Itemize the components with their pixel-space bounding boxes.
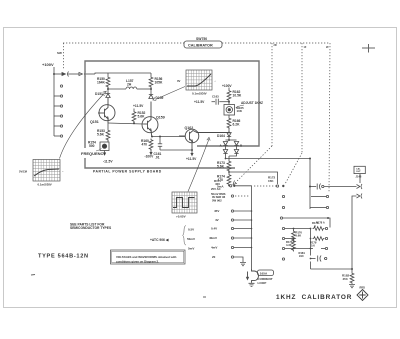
svg-text:→: → (214, 79, 217, 83)
wire to output cap (225, 158, 227, 160)
svg-text:50mV: 50mV (187, 237, 195, 241)
svg-text:+ATC 906 ◀: +ATC 906 ◀ (150, 238, 169, 242)
svg-text:0.1mS/DIV: 0.1mS/DIV (192, 92, 207, 96)
node -100V (150, 150, 152, 155)
wire leader curve to D159 (153, 87, 185, 101)
svg-text:Q151: Q151 (90, 120, 99, 124)
svg-text:CALIBRATOR: CALIBRATOR (188, 44, 213, 48)
wire rail (54, 67, 95, 136)
ground (349, 285, 355, 288)
potentiometer R165 ADJUST (224, 105, 235, 116)
svg-text:5.6K: 5.6K (138, 115, 146, 119)
wire leader curve to Q162 (188, 137, 210, 191)
wire tap to first contact (228, 171, 230, 174)
svg-text:164K: 164K (97, 81, 106, 85)
svg-text:+11.5V: +11.5V (186, 157, 197, 161)
wire dashed contact link (235, 195, 250, 197)
svg-text:ADJUST 1KHZ: ADJUST 1KHZ (241, 101, 263, 105)
transistor Q162 (179, 129, 229, 150)
svg-text:10.5K: 10.5K (233, 94, 242, 98)
resistor R175 (313, 227, 325, 231)
wire dashed contact link top (254, 185, 276, 187)
svg-text:40mV: 40mV (209, 236, 217, 240)
svg-text:1F: 1F (304, 46, 307, 49)
contact pair (moving) (276, 185, 278, 187)
svg-text:500: 500 (89, 144, 95, 148)
svg-text:SW750: SW750 (196, 37, 207, 41)
connector pair (62, 72, 86, 77)
voltages note box (111, 250, 186, 264)
svg-text:5V/CM: 5V/CM (19, 170, 27, 174)
svg-text:TYPE 564B-12N: TYPE 564B-12N (38, 254, 89, 260)
svg-text:45V: 45V (214, 209, 219, 213)
wire output bus from divider top (310, 159, 357, 210)
svg-text:D164: D164 (217, 134, 225, 138)
wire dashed diagonal to wafer 2 (285, 153, 302, 184)
contact row 248 (325, 247, 327, 249)
wire cross (108, 87, 151, 94)
svg-text:2H: 2H (127, 83, 132, 87)
svg-text:0.4V: 0.4V (211, 227, 217, 231)
svg-text:A: A (314, 224, 316, 228)
svg-text:165A: 165A (260, 271, 268, 275)
svg-text:OUT: OUT (356, 171, 361, 173)
resistor R166 (228, 115, 230, 117)
diode D159 (149, 95, 153, 99)
node +11.5V emitter (191, 150, 193, 156)
wire dashed drop at 330 (329, 43, 330, 193)
svg-text:C163: C163 (212, 95, 219, 99)
svg-text:+100V: +100V (42, 62, 54, 67)
capacitor C161 (158, 137, 192, 150)
wire dashed drop at 272 (271, 43, 273, 146)
wire dashed gang horizontal (63, 42, 184, 44)
svg-text:10K: 10K (237, 109, 243, 113)
resistor R156 (149, 76, 153, 88)
svg-text:4.3K: 4.3K (286, 243, 292, 247)
svg-text:Q159: Q159 (156, 116, 165, 120)
resistor R162 (227, 90, 231, 102)
svg-text:-11.5V: -11.5V (103, 160, 113, 164)
small mark bottom left (31, 274, 35, 277)
svg-text:470: 470 (142, 143, 148, 147)
svg-text:5.6K: 5.6K (97, 133, 105, 137)
diode pair D166 A/B (223, 150, 227, 154)
svg-text:5.6: 5.6 (311, 244, 315, 248)
svg-text:.01: .01 (155, 156, 160, 160)
svg-text:CAL: CAL (356, 167, 361, 170)
svg-text:910: 910 (299, 254, 304, 258)
resistor R152 (132, 111, 136, 123)
svg-text:Q162: Q162 (185, 126, 194, 130)
connector pins (357, 184, 363, 199)
svg-text:105K: 105K (155, 81, 164, 85)
svg-text:5mV: 5mV (188, 247, 194, 251)
svg-text:0.5V: 0.5V (188, 228, 194, 232)
svg-text:453: 453 (343, 277, 348, 281)
wire dashed drop left (63, 43, 65, 70)
svg-text:5.6K: 5.6K (296, 234, 302, 238)
svg-text:+11.5V: +11.5V (133, 104, 144, 108)
svg-text:←: ← (62, 169, 65, 173)
svg-text:4mV: 4mV (211, 246, 217, 250)
resistor R176 (292, 230, 296, 242)
wire return (352, 196, 357, 272)
svg-text:25V AC: 25V AC (211, 187, 221, 191)
svg-text:4V: 4V (215, 218, 219, 222)
transistor Q159 (142, 102, 158, 137)
svg-text:5.6K: 5.6K (217, 165, 225, 169)
wire long row to R175 (283, 218, 352, 269)
svg-text:15K: 15K (268, 179, 274, 183)
diode D164 (227, 133, 231, 137)
svg-text:VOLTAGES and WAVEFORMS obtaine: VOLTAGES and WAVEFORMS obtained with (116, 255, 177, 259)
resistor R160 (149, 139, 153, 151)
wire dashed diagonal to wafer 1 (234, 146, 272, 184)
diode pair D165 A/B (228, 139, 230, 141)
logo diamond (357, 290, 368, 301)
resistor R153 (107, 123, 109, 129)
wire emitter junction (151, 136, 153, 138)
svg-text:+0.05V: +0.05V (176, 215, 186, 219)
svg-text:2R: 2R (274, 44, 277, 47)
switch label SW750 (57, 37, 329, 55)
resistor R173 (227, 160, 231, 172)
svg-text:conditions given on Diagram 2.: conditions given on Diagram 2. (116, 260, 159, 264)
svg-text:IN SER 96: IN SER 96 (212, 195, 226, 199)
connector CAL OUT J168 (354, 166, 365, 183)
potentiometer R154 FREQUENCY (100, 140, 109, 155)
wire bus to current loop (234, 186, 252, 269)
diode D151 (106, 94, 110, 98)
bracket group (183, 226, 187, 246)
svg-text:2F: 2F (326, 46, 329, 49)
svg-text:FREQUENCY: FREQUENCY (81, 151, 106, 156)
capacitor C184 (318, 256, 321, 262)
svg-text:SEMICONDUCTOR TYPES: SEMICONDUCTOR TYPES (70, 226, 112, 230)
node 5mA (228, 185, 230, 187)
resistor R182 (350, 272, 354, 284)
wire leader curve to D151 (60, 91, 107, 158)
resistor R177 (292, 240, 296, 252)
inductor L157 (108, 87, 151, 89)
svg-text:0V: 0V (177, 79, 181, 83)
svg-text:+100V: +100V (222, 84, 232, 88)
wire top rail in box (95, 73, 151, 76)
contact moving filled (282, 185, 284, 187)
wire dashed drop at 302 (301, 43, 303, 153)
svg-text:+11.5V: +11.5V (194, 100, 205, 104)
resistor R179 (313, 237, 325, 241)
svg-text:20: 20 (212, 255, 216, 259)
svg-text:RRD: RRD (360, 287, 366, 290)
capacitor C163 (212, 99, 230, 105)
resistor R150 (106, 76, 110, 88)
resistor R174 (227, 174, 231, 186)
svg-text:PARTIAL POWER SUPPLY BOARD: PARTIAL POWER SUPPLY BOARD (93, 170, 162, 174)
svg-text:6.2K: 6.2K (233, 123, 241, 127)
svg-text:J148: J148 (356, 175, 362, 179)
transistor Q151 (98, 98, 115, 124)
svg-text:400: 400 (215, 182, 220, 186)
wire to moving contact (228, 185, 231, 187)
ground (240, 263, 246, 266)
svg-text:0.1mS/DIV: 0.1mS/DIV (38, 183, 52, 187)
svg-text:LOOP: LOOP (258, 281, 267, 285)
contact column wafer 2 (282, 195, 284, 197)
svg-text:1KHZ CALIBRATOR: 1KHZ CALIBRATOR (276, 294, 352, 301)
registration mark top right (362, 44, 375, 53)
capacitor C183 (317, 184, 320, 190)
svg-text:SW: SW (57, 51, 62, 55)
svg-text:D151: D151 (95, 92, 103, 96)
wire emitter bus (108, 123, 144, 124)
